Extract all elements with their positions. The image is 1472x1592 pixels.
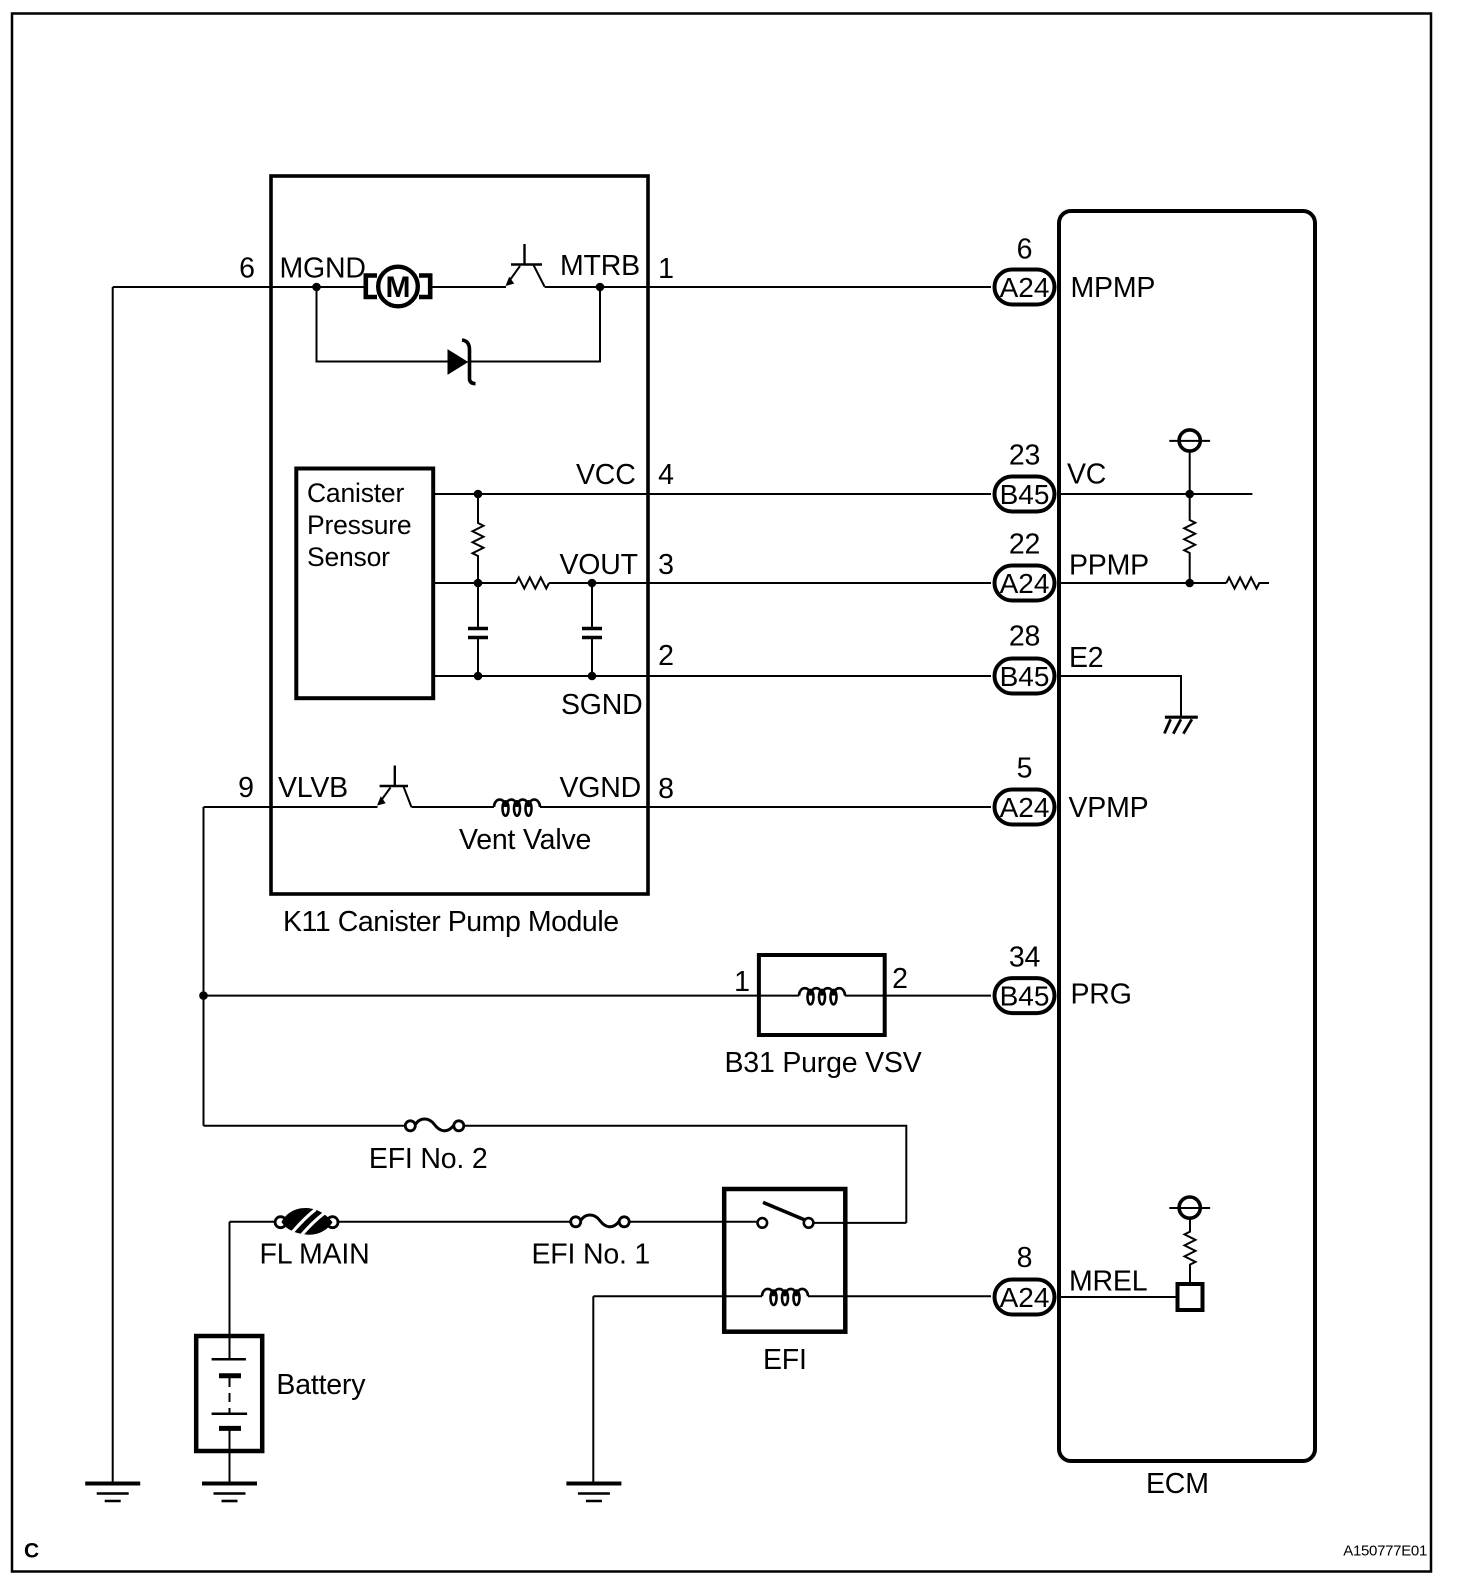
svg-text:A150777E01: A150777E01 xyxy=(1343,1543,1427,1560)
svg-text:6: 6 xyxy=(239,253,255,285)
svg-text:Pressure: Pressure xyxy=(307,510,411,540)
wire VGND to ECM xyxy=(540,806,991,808)
svg-text:1: 1 xyxy=(734,966,750,998)
transistor Q2 vent valve driver xyxy=(377,766,411,808)
svg-text:Sensor: Sensor xyxy=(307,542,390,572)
inductor L2 purge VSV coil xyxy=(799,988,845,1004)
svg-text:MGND: MGND xyxy=(280,253,366,285)
wire relay coil net xyxy=(593,1296,991,1481)
relay switch S1 contacts xyxy=(758,1218,768,1228)
wire MTRB to ECM connector xyxy=(545,286,992,288)
fuse EFI No. 1 xyxy=(571,1215,630,1227)
wire VLVB net xyxy=(204,807,378,996)
svg-text:Battery: Battery xyxy=(276,1369,366,1401)
ECM box xyxy=(1059,211,1315,1461)
svg-text:9: 9 xyxy=(238,772,254,804)
svg-text:VPMP: VPMP xyxy=(1069,792,1149,824)
node SGND junction right xyxy=(588,672,597,681)
svg-text:22: 22 xyxy=(1009,529,1040,561)
fusible link FL MAIN xyxy=(275,1208,338,1235)
resistor R3 VC to PPMP xyxy=(1184,494,1195,583)
wire inside VSV xyxy=(759,995,885,997)
connector A24 pin 5 VPMP xyxy=(995,753,1055,825)
connector A24 pin 22 PPMP xyxy=(995,529,1055,601)
wire EFI No.2 net xyxy=(204,1126,907,1223)
svg-text:6: 6 xyxy=(1017,234,1033,266)
svg-text:PRG: PRG xyxy=(1071,979,1132,1011)
ground (battery) xyxy=(202,1484,257,1502)
wire power to VC node xyxy=(1189,451,1191,494)
wire MGND net: left drop to ground and into module xyxy=(113,287,364,1482)
power source symbol (MREL pull-up) xyxy=(1169,1197,1210,1218)
connector B45 pin 34 PRG xyxy=(995,942,1055,1014)
svg-text:VOUT: VOUT xyxy=(560,549,638,581)
svg-text:23: 23 xyxy=(1009,440,1040,472)
connector B45 pin 23 VC xyxy=(995,440,1055,512)
node VCC junction xyxy=(474,490,483,499)
power source symbol (VC pull-up) xyxy=(1169,430,1210,451)
connector A24 pin 8 MREL xyxy=(995,1242,1055,1315)
wire diode branch xyxy=(317,287,601,362)
node PPMP junction xyxy=(1185,579,1194,588)
motor M1 canister pump motor xyxy=(366,267,430,307)
svg-text:A24: A24 xyxy=(1000,568,1050,599)
svg-text:FL MAIN: FL MAIN xyxy=(260,1239,370,1271)
svg-text:B45: B45 xyxy=(1000,981,1050,1012)
inductor L1 vent valve coil xyxy=(494,800,540,816)
chassis ground (E2) xyxy=(1164,717,1197,734)
Canister Pressure Sensor box xyxy=(296,469,433,699)
svg-text:8: 8 xyxy=(658,773,674,805)
svg-text:MPMP: MPMP xyxy=(1071,272,1156,304)
connector B45 pin 28 E2 xyxy=(995,621,1055,694)
capacitor C1 xyxy=(468,583,488,676)
svg-text:Canister: Canister xyxy=(307,478,404,508)
wire VC internal xyxy=(1059,493,1252,495)
node VOUT junction left xyxy=(474,579,483,588)
relay switch S1 blade xyxy=(763,1202,804,1219)
wire square to resistor xyxy=(1189,1265,1191,1284)
K11 Canister Pump Module box xyxy=(271,176,648,894)
svg-text:2: 2 xyxy=(892,963,908,995)
terminal square (MREL) xyxy=(1178,1284,1203,1310)
wire VOUT net xyxy=(433,582,516,584)
svg-text:M: M xyxy=(386,271,411,304)
node VC junction xyxy=(1185,490,1194,499)
svg-text:4: 4 xyxy=(658,459,674,491)
svg-text:2: 2 xyxy=(658,640,674,672)
svg-text:VC: VC xyxy=(1067,459,1106,491)
svg-text:VGND: VGND xyxy=(560,772,642,804)
wire motor to transistor Q1 xyxy=(430,286,506,288)
capacitor C2 xyxy=(582,583,602,676)
node PRG junction xyxy=(199,991,208,1000)
battery cells xyxy=(212,1336,248,1482)
wire VCC net xyxy=(433,493,991,495)
wire VOUT to ECM xyxy=(549,582,991,584)
wire E2 internal xyxy=(1059,676,1181,716)
svg-text:1: 1 xyxy=(658,253,674,285)
svg-text:ECM: ECM xyxy=(1146,1468,1209,1500)
svg-text:28: 28 xyxy=(1009,621,1040,653)
connector A24 pin 6 MPMP xyxy=(995,234,1055,305)
svg-text:A24: A24 xyxy=(1000,1282,1050,1313)
resistor R1 sensor pull-up xyxy=(473,494,484,583)
svg-text:3: 3 xyxy=(658,549,674,581)
node MTRB junction xyxy=(596,283,605,292)
node SGND junction left xyxy=(474,672,483,681)
svg-text:34: 34 xyxy=(1009,942,1041,974)
resistor R4 PPMP series xyxy=(1226,578,1269,589)
wire PRG net left xyxy=(204,996,759,1126)
svg-text:B45: B45 xyxy=(1000,661,1050,692)
svg-text:K11 Canister Pump Module: K11 Canister Pump Module xyxy=(283,906,619,938)
svg-text:EFI: EFI xyxy=(763,1344,807,1376)
svg-text:B31 Purge VSV: B31 Purge VSV xyxy=(725,1047,922,1079)
svg-text:B45: B45 xyxy=(1000,479,1050,510)
svg-text:MREL: MREL xyxy=(1069,1266,1147,1298)
EFI relay box xyxy=(724,1189,845,1332)
B31 Purge VSV box xyxy=(759,955,885,1035)
wire PPMP internal xyxy=(1059,582,1226,584)
ground (EFI relay coil) xyxy=(566,1484,621,1502)
resistor R5 MREL pull-up xyxy=(1185,1218,1196,1265)
svg-text:8: 8 xyxy=(1017,1242,1033,1274)
svg-text:EFI No. 2: EFI No. 2 xyxy=(369,1143,488,1175)
diode D1 (zener) across motor xyxy=(448,340,476,384)
wire VSV to ECM xyxy=(885,995,991,997)
wire switch output xyxy=(813,1222,906,1224)
resistor R2 VOUT series xyxy=(516,578,549,589)
svg-text:VCC: VCC xyxy=(576,459,636,491)
svg-text:5: 5 xyxy=(1017,753,1033,785)
wire battery / FL MAIN net xyxy=(230,1222,758,1336)
node MGND junction xyxy=(312,283,321,292)
svg-text:A24: A24 xyxy=(1000,792,1050,823)
wire MREL internal xyxy=(1059,1296,1177,1298)
svg-text:E2: E2 xyxy=(1069,642,1103,674)
inductor L3 EFI relay coil xyxy=(762,1289,808,1305)
wire VGND to coil xyxy=(411,806,494,808)
Battery box xyxy=(196,1336,262,1451)
svg-text:C: C xyxy=(24,1540,39,1563)
svg-text:A24: A24 xyxy=(1000,272,1050,303)
transistor Q1 motor driver xyxy=(506,244,545,287)
svg-text:MTRB: MTRB xyxy=(560,250,640,282)
svg-text:SGND: SGND xyxy=(561,689,643,721)
ground (MGND drop) xyxy=(85,1484,140,1502)
node VOUT junction right xyxy=(588,579,597,588)
svg-text:EFI No. 1: EFI No. 1 xyxy=(532,1239,651,1271)
svg-text:VLVB: VLVB xyxy=(278,772,348,804)
fuse EFI No. 2 xyxy=(405,1119,464,1131)
svg-text:Vent Valve: Vent Valve xyxy=(459,824,591,856)
svg-text:PPMP: PPMP xyxy=(1069,550,1149,582)
wire SGND net xyxy=(433,675,991,677)
